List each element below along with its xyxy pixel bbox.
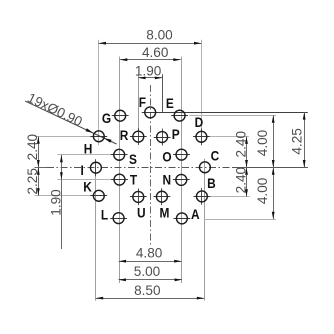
svg-text:O: O [162,149,171,165]
svg-text:2.40: 2.40 [233,131,248,158]
svg-text:1.90: 1.90 [135,64,162,79]
svg-text:P: P [172,126,180,142]
svg-text:T: T [130,172,137,188]
svg-text:S: S [129,151,137,167]
svg-text:2.25: 2.25 [25,168,40,194]
svg-text:F: F [139,94,146,110]
svg-text:A: A [191,206,200,222]
svg-text:1.90: 1.90 [48,189,63,216]
svg-text:U: U [137,205,146,221]
svg-text:R: R [120,127,129,143]
svg-text:H: H [84,141,93,157]
svg-text:B: B [207,175,216,191]
svg-text:E: E [166,95,174,111]
svg-text:8.50: 8.50 [134,283,161,298]
svg-text:K: K [83,178,92,194]
svg-text:2.40: 2.40 [25,133,40,160]
svg-text:4.00: 4.00 [255,129,270,156]
svg-text:M: M [160,205,170,221]
svg-text:L: L [101,206,108,222]
svg-text:4.60: 4.60 [142,45,169,60]
svg-text:C: C [211,147,220,163]
svg-text:19xØ0.90: 19xØ0.90 [25,90,85,130]
svg-text:8.00: 8.00 [146,27,173,42]
svg-text:5.00: 5.00 [134,264,161,279]
svg-text:4.80: 4.80 [136,245,163,260]
svg-text:4.00: 4.00 [255,177,270,204]
svg-text:2.40: 2.40 [233,166,248,193]
svg-text:I: I [80,162,83,178]
svg-text:G: G [102,110,111,126]
svg-text:N: N [162,171,171,187]
svg-text:D: D [195,114,204,130]
svg-text:4.25: 4.25 [290,128,305,154]
